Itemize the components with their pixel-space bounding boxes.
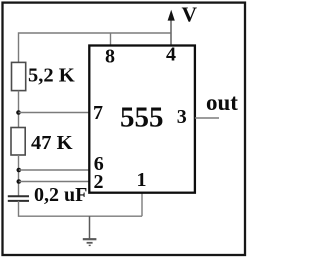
svg-text:out: out [206, 90, 238, 115]
svg-text:47 K: 47 K [31, 132, 73, 154]
svg-text:7: 7 [93, 102, 103, 124]
svg-text:555: 555 [120, 101, 164, 133]
wire: pin 6 lead to IC [19, 169, 90, 171]
wire: top supply rail from left rail to V lead [19, 33, 172, 62]
wire: left rail between R2 and capacitor [18, 155, 20, 196]
wire: pin 2 lead to IC [19, 181, 90, 183]
wire: pin 7 lead to IC [19, 112, 90, 114]
power arrow for V supply [168, 10, 175, 21]
svg-text:5,2 K: 5,2 K [28, 65, 75, 87]
svg-text:0,2 uF: 0,2 uF [34, 184, 87, 206]
svg-text:8: 8 [105, 46, 115, 68]
capacitor C1 [8, 196, 29, 201]
resistor R2 [11, 128, 25, 156]
op IC U1 555 timer body [89, 46, 195, 193]
junction dot node between R1 and R2 (pin 7 tap) [16, 110, 21, 115]
junction dot node pin 6 tap [17, 168, 22, 173]
svg-text:2: 2 [94, 171, 104, 193]
svg-text:V: V [182, 3, 198, 27]
wire: pin 1 lead down to ground rail [141, 193, 143, 217]
wire: pin 3 output stub [195, 117, 219, 119]
wire: capacitor bottom lead to ground rail [19, 201, 143, 216]
wire: V supply lead above pin 4 [170, 19, 172, 46]
wire: left rail between R1 and R2 [18, 91, 20, 128]
svg-text:1: 1 [137, 169, 147, 191]
wire: pin 8 stub up to supply rail [110, 33, 112, 46]
ground symbol [83, 216, 97, 245]
svg-text:4: 4 [166, 44, 176, 66]
junction dot node pin 2 tap [17, 179, 22, 184]
resistor R1 [12, 62, 26, 90]
border frame of schematic [3, 3, 246, 255]
svg-text:3: 3 [177, 106, 187, 128]
